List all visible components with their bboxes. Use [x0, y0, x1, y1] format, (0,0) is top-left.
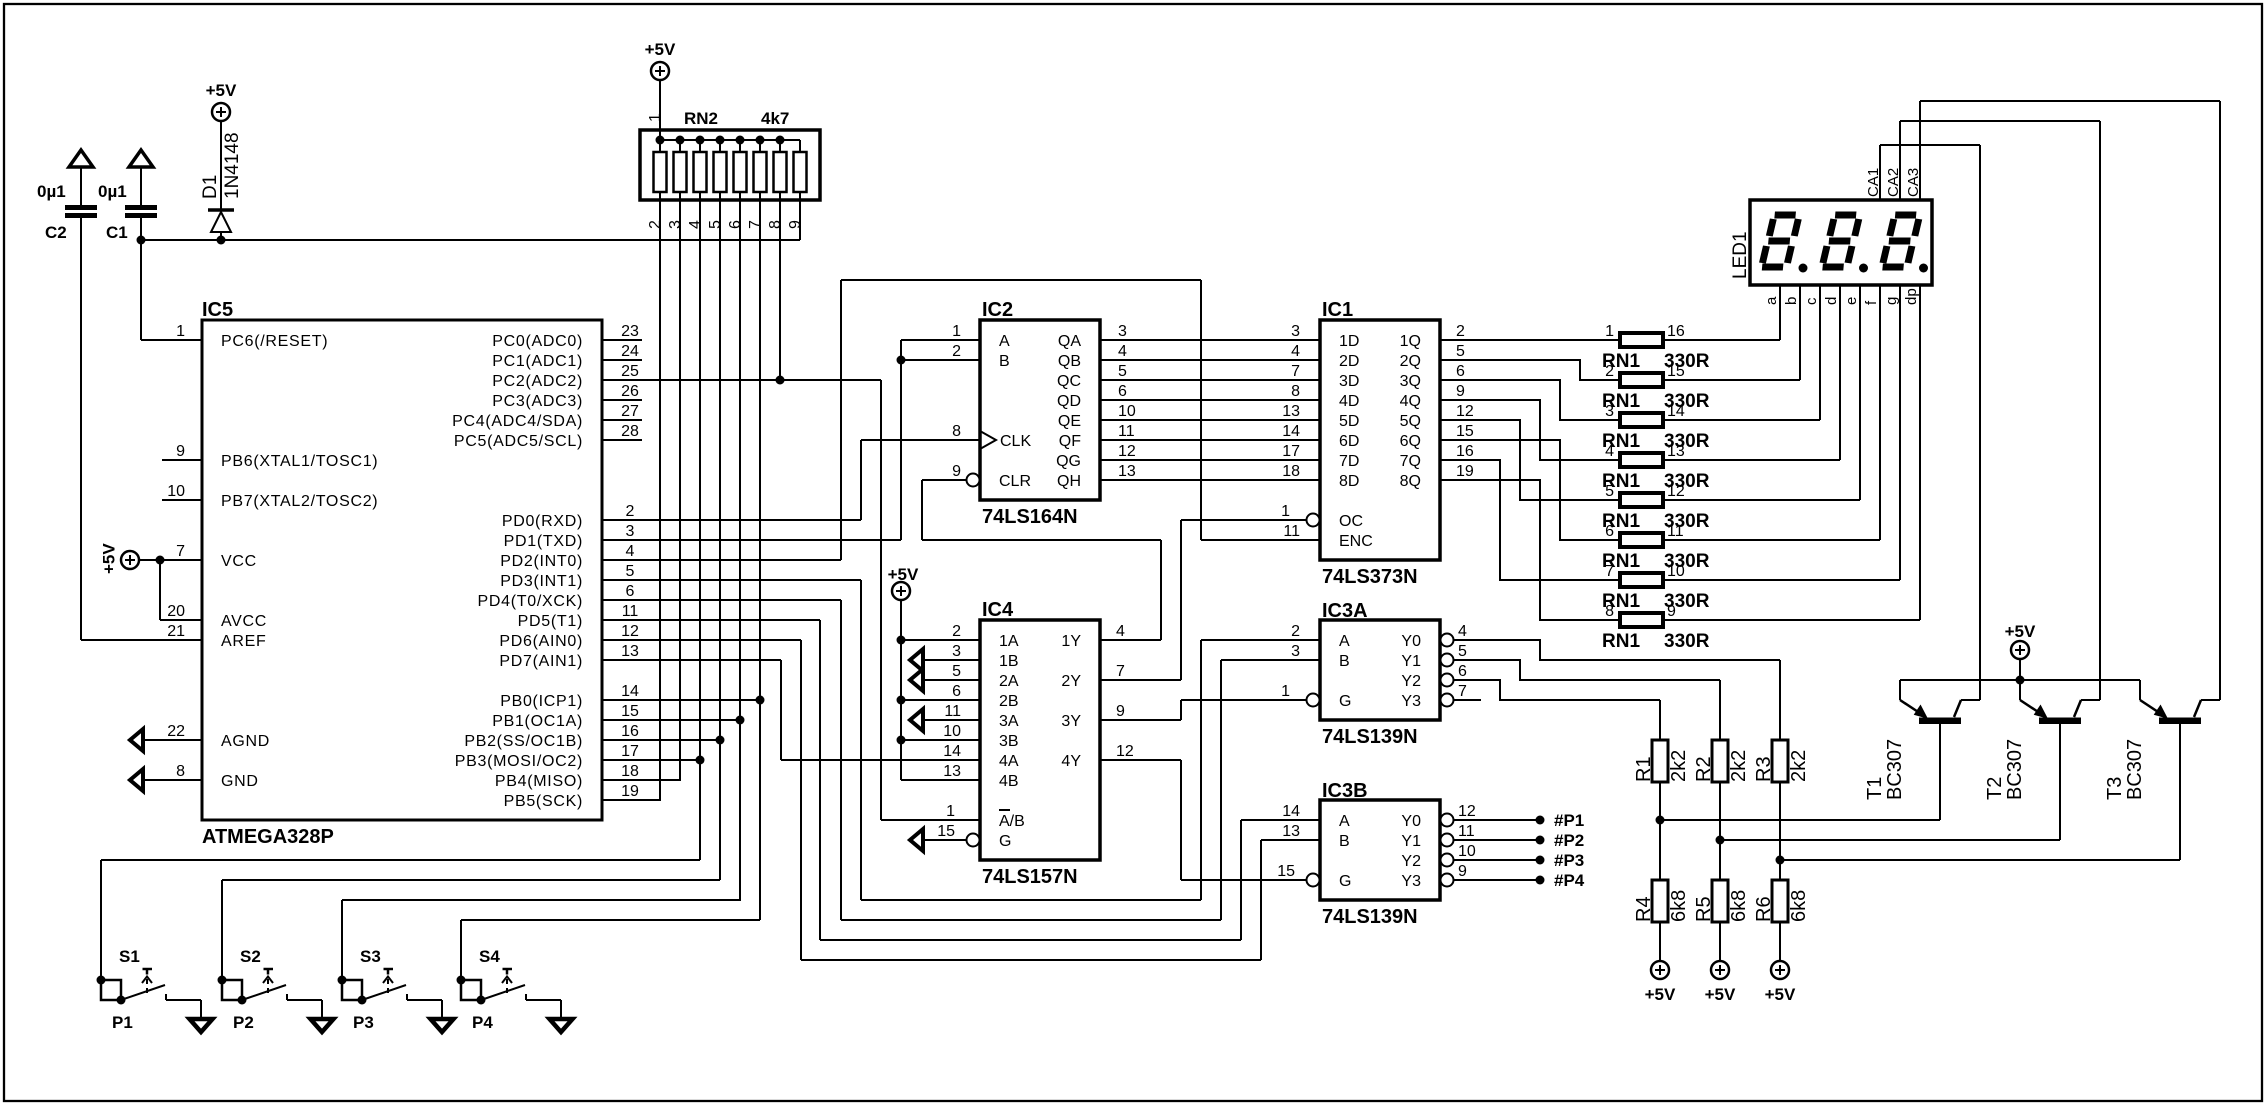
IC3A pin names [1281, 623, 1467, 710]
svg-text:CLK: CLK [1000, 433, 1031, 450]
svg-text:74LS139N: 74LS139N [1322, 726, 1418, 748]
svg-text:13: 13 [943, 763, 961, 780]
svg-text:4: 4 [687, 220, 704, 229]
svg-text:14: 14 [621, 683, 639, 700]
svg-text:7: 7 [1605, 563, 1614, 580]
IC3A Y3 bubble [1441, 694, 1482, 707]
diode D1 1N4148 [200, 121, 243, 245]
switch S4 [457, 947, 526, 1032]
svg-text:S4: S4 [479, 947, 500, 966]
svg-text:#P3: #P3 [1554, 851, 1584, 870]
IC4 pin 1A wire [901, 639, 980, 641]
svg-text:PC4(ADC4/SDA): PC4(ADC4/SDA) [452, 413, 583, 430]
wire S2 to ground [287, 994, 322, 1020]
capacitor C1 [98, 150, 157, 242]
svg-text:d: d [1823, 297, 1840, 305]
wire P2 net [221, 880, 223, 980]
svg-text:ENC: ENC [1339, 533, 1373, 550]
svg-text:T3: T3 [2104, 777, 2126, 800]
wire CA2 to T2 collector [1900, 121, 2100, 700]
svg-text:15: 15 [1456, 423, 1474, 440]
wire RN1-2 to LED segment b [1663, 285, 1800, 380]
RN2 pin 7 wire [756, 200, 765, 920]
wire R1 junction to transistor base [1656, 816, 1941, 825]
svg-text:R4: R4 [1633, 896, 1655, 922]
svg-text:S3: S3 [360, 947, 381, 966]
svg-text:4D: 4D [1339, 393, 1359, 410]
power +5V below R4 [1645, 961, 1676, 1004]
svg-text:P3: P3 [353, 1013, 374, 1032]
svg-text:GND: GND [221, 773, 259, 790]
wire VCC-AVCC [160, 560, 202, 620]
svg-text:A: A [1339, 813, 1350, 830]
wire Y1 to R2 [1454, 660, 1720, 680]
svg-text:5Q: 5Q [1400, 413, 1421, 430]
ground arrow AGND [130, 729, 202, 751]
svg-text:7: 7 [1116, 663, 1125, 680]
IC4 G bubble [910, 829, 980, 851]
svg-text:9: 9 [176, 443, 185, 460]
svg-text:P2: P2 [233, 1013, 254, 1032]
svg-text:+5V: +5V [888, 565, 919, 584]
wire S4 to ground [526, 994, 561, 1020]
svg-text:PB0(ICP1): PB0(ICP1) [500, 693, 583, 710]
svg-text:9: 9 [787, 220, 804, 229]
RN2 pin labels 2-9 [647, 220, 804, 229]
wire PD6 to IC3B B [602, 640, 1320, 960]
svg-text:C1: C1 [106, 223, 128, 242]
svg-text:4A: 4A [999, 753, 1019, 770]
IC IC2 74LS164N box [980, 299, 1100, 528]
wire PB3 row [602, 759, 700, 761]
svg-text:Y3: Y3 [1401, 873, 1421, 890]
svg-text:RN2: RN2 [684, 109, 718, 128]
IC2 pin B wire [901, 359, 980, 361]
svg-text:AREF: AREF [221, 633, 266, 650]
power +5V at D1 [206, 81, 237, 121]
svg-text:13: 13 [621, 643, 639, 660]
IC1 right pin names [1400, 323, 1474, 490]
bus IC2 outputs to IC1 inputs [1100, 340, 1320, 480]
svg-text:g: g [1883, 297, 1900, 305]
svg-text:B: B [999, 353, 1010, 370]
svg-text:6k8: 6k8 [1788, 890, 1810, 922]
wire 4Q to RN1-4 [1440, 400, 1620, 460]
svg-text:19: 19 [1456, 463, 1474, 480]
svg-text:A/B: A/B [999, 813, 1025, 830]
svg-text:+5V: +5V [100, 543, 119, 574]
svg-text:1: 1 [1281, 683, 1290, 700]
wire PC2 to IC4 select [602, 380, 980, 820]
svg-text:22: 22 [167, 723, 185, 740]
resistor R1 2k2 [1633, 700, 1690, 820]
svg-text:PB1(OC1A): PB1(OC1A) [492, 713, 583, 730]
svg-text:74LS164N: 74LS164N [982, 506, 1078, 528]
svg-text:7: 7 [1458, 683, 1467, 700]
svg-text:2Y: 2Y [1061, 673, 1081, 690]
svg-text:13: 13 [1282, 403, 1300, 420]
svg-text:a: a [1763, 296, 1780, 305]
IC3B G bubble [1181, 874, 1320, 887]
wire R2 junction to transistor base [1716, 836, 2061, 845]
LED1 pin CA1 [1865, 145, 1882, 200]
wire +5V to RN2 pin1 [647, 80, 664, 140]
svg-text:2D: 2D [1339, 353, 1359, 370]
power +5V at IC4 [888, 565, 919, 600]
IC3B Y1 bubble [1441, 834, 1454, 847]
svg-text:6k8: 6k8 [1668, 890, 1690, 922]
LED1 segment pin labels [1763, 288, 1920, 305]
svg-text:AVCC: AVCC [221, 613, 267, 630]
svg-text:T2: T2 [1984, 777, 2006, 800]
svg-text:1: 1 [176, 323, 185, 340]
wire P3 net [341, 900, 343, 980]
svg-text:3B: 3B [999, 733, 1019, 750]
svg-text:2: 2 [1456, 323, 1465, 340]
wire CA3 to T3 collector [1920, 101, 2220, 700]
svg-text:QA: QA [1058, 333, 1081, 350]
resistor network RN2 4k7 [640, 109, 820, 200]
svg-text:G: G [999, 833, 1011, 850]
svg-text:4Q: 4Q [1400, 393, 1421, 410]
svg-text:+5V: +5V [2005, 622, 2036, 641]
svg-text:6: 6 [1118, 383, 1127, 400]
ground arrow below S2 [311, 1019, 334, 1032]
IC3A Y1 bubble [1441, 654, 1454, 667]
svg-text:PC6(/RESET): PC6(/RESET) [221, 333, 328, 350]
svg-text:A: A [999, 333, 1010, 350]
IC5 stub PC0 [602, 339, 642, 341]
svg-text:18: 18 [621, 763, 639, 780]
IC5 stub PC1 [602, 359, 642, 361]
svg-text:12: 12 [1456, 403, 1474, 420]
svg-text:P4: P4 [472, 1013, 493, 1032]
IC2 pin A wire [901, 339, 980, 341]
svg-text:1B: 1B [999, 653, 1019, 670]
svg-text:19: 19 [621, 783, 639, 800]
svg-text:26: 26 [621, 383, 639, 400]
svg-text:5: 5 [1456, 343, 1465, 360]
svg-text:RN1: RN1 [1602, 631, 1640, 652]
power +5V below R6 [1765, 961, 1796, 1004]
svg-text:5: 5 [707, 220, 724, 229]
svg-text:D1: D1 [200, 175, 221, 199]
svg-text:15: 15 [1667, 363, 1685, 380]
resistor R6 6k8 [1753, 860, 1810, 961]
wire +5V emitter rail [1900, 679, 2140, 681]
wire CA1 to T1 collector [1880, 145, 1980, 700]
power +5V at VCC [100, 543, 139, 574]
svg-text:+5V: +5V [206, 81, 237, 100]
svg-text:14: 14 [1282, 803, 1300, 820]
svg-text:11: 11 [1458, 823, 1475, 840]
svg-text:ATMEGA328P: ATMEGA328P [202, 826, 334, 848]
svg-text:7D: 7D [1339, 453, 1359, 470]
svg-text:#P2: #P2 [1554, 831, 1584, 850]
svg-text:#P4: #P4 [1554, 871, 1585, 890]
RN2 pin 6 wire [736, 200, 745, 900]
svg-text:11: 11 [1667, 523, 1684, 540]
power +5V at RN2 [645, 40, 676, 80]
svg-text:10: 10 [1118, 403, 1136, 420]
wire RN1-1 to LED segment a [1663, 285, 1780, 340]
svg-text:6D: 6D [1339, 433, 1359, 450]
wire PD1 to IC2 A B [602, 340, 906, 540]
wire PD2 to IC1 ENC loop [602, 280, 1320, 560]
svg-text:7: 7 [176, 543, 185, 560]
svg-text:13: 13 [1282, 823, 1300, 840]
wire reset rail [141, 239, 800, 241]
svg-text:16: 16 [621, 723, 639, 740]
svg-text:16: 16 [1667, 323, 1685, 340]
svg-text:9: 9 [1456, 383, 1465, 400]
svg-text:12: 12 [1667, 483, 1685, 500]
svg-text:4: 4 [1116, 623, 1125, 640]
svg-text:4Y: 4Y [1061, 753, 1081, 770]
IC3B Y3 bubble [1441, 874, 1454, 887]
svg-text:6: 6 [1605, 523, 1614, 540]
IC3B pin names [1277, 803, 1476, 890]
svg-text:8: 8 [952, 423, 961, 440]
svg-text:C2: C2 [45, 223, 67, 242]
svg-text:10: 10 [943, 723, 961, 740]
svg-text:2k2: 2k2 [1728, 750, 1750, 782]
svg-text:dp: dp [1903, 288, 1920, 305]
wire R3 junction to transistor base [1776, 856, 2181, 865]
RN2 pin 2 wire [659, 200, 661, 800]
svg-text:9: 9 [1458, 863, 1467, 880]
wire PB1 row [602, 719, 741, 721]
svg-text:IC3B: IC3B [1322, 780, 1368, 802]
wire P4 net [460, 920, 462, 980]
svg-text:QE: QE [1058, 413, 1081, 430]
svg-text:17: 17 [1282, 443, 1300, 460]
svg-text:2k2: 2k2 [1668, 750, 1690, 782]
power +5V at rail [2005, 622, 2036, 685]
svg-text:IC5: IC5 [202, 299, 233, 321]
svg-text:2: 2 [1605, 363, 1614, 380]
svg-text:7: 7 [747, 220, 764, 229]
resistor RN1-1 330R [1602, 323, 1710, 372]
transistor T2 BC307 [1984, 680, 2100, 840]
svg-text:3: 3 [1291, 643, 1300, 660]
svg-text:15: 15 [937, 823, 955, 840]
wire PD7 to IC4 4A [602, 660, 980, 760]
svg-text:Y2: Y2 [1401, 673, 1421, 690]
svg-text:3Y: 3Y [1061, 713, 1081, 730]
svg-text:PD1(TXD): PD1(TXD) [504, 533, 583, 550]
wire PB0 net to S4 [461, 919, 760, 921]
resistor R3 2k2 [1753, 660, 1810, 860]
svg-text:1N4148: 1N4148 [222, 132, 243, 199]
wire PB1 net to S3 [342, 899, 741, 901]
IC IC1 74LS373N box [1320, 299, 1440, 588]
svg-text:2B: 2B [999, 693, 1019, 710]
svg-text:74LS373N: 74LS373N [1322, 566, 1418, 588]
svg-text:23: 23 [621, 323, 639, 340]
svg-text:A: A [1339, 633, 1350, 650]
svg-text:3: 3 [1605, 403, 1614, 420]
svg-text:R3: R3 [1753, 756, 1775, 782]
wire 8Q to RN1-8 [1440, 480, 1620, 620]
svg-text:7Q: 7Q [1400, 453, 1421, 470]
svg-text:27: 27 [621, 403, 639, 420]
wire C2-AREF [81, 218, 202, 640]
svg-text:CA1: CA1 [1865, 168, 1882, 197]
svg-text:QF: QF [1059, 433, 1081, 450]
resistor RN1-6 330R [1602, 523, 1710, 572]
svg-text:PC5(ADC5/SCL): PC5(ADC5/SCL) [454, 433, 583, 450]
IC5 pin 9 stub [162, 459, 202, 461]
svg-text:5: 5 [1458, 643, 1467, 660]
resistor R5 6k8 [1693, 840, 1750, 961]
svg-text:74LS157N: 74LS157N [982, 866, 1078, 888]
wire PD3 to IC3A A [602, 580, 1320, 900]
wire 1Q to RN1-1 [1440, 339, 1620, 341]
wire RN1-3 to LED segment c [1663, 285, 1820, 420]
IC5 stub PC3 [602, 399, 642, 401]
wire VCC [139, 556, 202, 565]
svg-text:10: 10 [1667, 563, 1685, 580]
wire 2Q to RN1-2 [1440, 360, 1620, 380]
svg-text:8: 8 [1291, 383, 1300, 400]
svg-text:PB7(XTAL2/TOSC2): PB7(XTAL2/TOSC2) [221, 493, 378, 510]
svg-text:IC2: IC2 [982, 299, 1013, 321]
wire PB5 row [602, 799, 661, 801]
svg-text:15: 15 [1277, 863, 1295, 880]
wire 5Q to RN1-5 [1440, 420, 1620, 500]
resistor RN1-2 330R [1602, 363, 1710, 412]
wire S1 to ground [166, 994, 201, 1020]
svg-text:8D: 8D [1339, 473, 1359, 490]
wire RN1-8 to LED segment dp [1663, 285, 1920, 620]
svg-text:PD7(AIN1): PD7(AIN1) [499, 653, 583, 670]
svg-text:PD5(T1): PD5(T1) [518, 613, 583, 630]
IC2 right pin names [1056, 323, 1136, 490]
svg-text:9: 9 [1116, 703, 1125, 720]
svg-text:10: 10 [167, 483, 185, 500]
wire OC net from IC4 2Y [1101, 520, 1181, 680]
wire PD4 to IC3A B [602, 600, 1320, 920]
wire 7Q to RN1-7 [1440, 460, 1620, 580]
svg-text:B: B [1339, 833, 1350, 850]
svg-text:2: 2 [1291, 623, 1300, 640]
svg-text:QB: QB [1058, 353, 1081, 370]
IC IC3A 74LS139N box [1320, 600, 1440, 748]
svg-text:4k7: 4k7 [761, 109, 789, 128]
svg-text:PC0(ADC0): PC0(ADC0) [492, 333, 583, 350]
IC4 pin 4B wire [901, 779, 980, 781]
svg-text:5: 5 [1605, 483, 1614, 500]
RN2 pin 3 wire [679, 200, 681, 780]
svg-text:8: 8 [767, 220, 784, 229]
svg-text:PD0(RXD): PD0(RXD) [502, 513, 583, 530]
node #P1 [1454, 811, 1584, 830]
wire S3 to ground [407, 994, 442, 1020]
svg-text:18: 18 [1282, 463, 1300, 480]
svg-text:PB4(MISO): PB4(MISO) [495, 773, 583, 790]
IC3A Y2 bubble [1441, 674, 1454, 687]
switch S1 [97, 947, 166, 1032]
svg-text:4B: 4B [999, 773, 1019, 790]
wire Y0 to R3 [1454, 640, 1780, 660]
svg-text:1A: 1A [999, 633, 1019, 650]
svg-text:S1: S1 [119, 947, 140, 966]
IC5 left pin names [167, 323, 378, 790]
wire PB2 net to S2 [222, 879, 720, 881]
svg-text:QD: QD [1057, 393, 1081, 410]
svg-text:0µ1: 0µ1 [37, 182, 66, 201]
IC IC3B 74LS139N box [1320, 780, 1440, 928]
IC5 stub PC4 [602, 419, 642, 421]
svg-text:Y0: Y0 [1401, 633, 1421, 650]
IC IC4 74LS157N box [980, 599, 1100, 888]
svg-text:6k8: 6k8 [1728, 890, 1750, 922]
svg-text:4: 4 [1291, 343, 1300, 360]
svg-text:3: 3 [1291, 323, 1300, 340]
svg-text:Y3: Y3 [1401, 693, 1421, 710]
svg-text:2: 2 [647, 220, 664, 229]
wire IC4 4Y to IC3B G [1101, 760, 1181, 880]
svg-text:12: 12 [1118, 443, 1136, 460]
svg-text:2: 2 [952, 343, 961, 360]
svg-text:3Q: 3Q [1400, 373, 1421, 390]
svg-text:QC: QC [1057, 373, 1081, 390]
ground arrow GND [130, 769, 202, 791]
svg-text:21: 21 [167, 623, 185, 640]
ground arrow below S4 [550, 1019, 573, 1032]
svg-text:b: b [1783, 297, 1800, 305]
capacitor C2 [37, 150, 97, 242]
svg-text:5: 5 [626, 563, 635, 580]
svg-text:8Q: 8Q [1400, 473, 1421, 490]
LED1 3-digit 7-segment display [1730, 200, 1932, 285]
svg-text:2: 2 [952, 623, 961, 640]
svg-text:25: 25 [621, 363, 639, 380]
svg-text:6: 6 [727, 220, 744, 229]
svg-text:1: 1 [647, 113, 664, 122]
svg-text:R5: R5 [1693, 896, 1715, 922]
svg-text:74LS139N: 74LS139N [1322, 906, 1418, 928]
svg-text:3: 3 [1118, 323, 1127, 340]
svg-text:4: 4 [1458, 623, 1467, 640]
IC2 CLK triangle [980, 431, 996, 449]
svg-text:1: 1 [1281, 503, 1290, 520]
svg-text:PC1(ADC1): PC1(ADC1) [492, 353, 583, 370]
wire PB3 net to S1 [101, 859, 700, 861]
svg-text:10: 10 [1458, 843, 1476, 860]
RN2 pin 4 wire [696, 200, 705, 860]
svg-text:14: 14 [1282, 423, 1300, 440]
svg-text:VCC: VCC [221, 553, 257, 570]
svg-text:5: 5 [952, 663, 961, 680]
svg-text:IC3A: IC3A [1322, 600, 1368, 622]
svg-text:1D: 1D [1339, 333, 1359, 350]
svg-text:12: 12 [1116, 743, 1134, 760]
IC5 pin 10 stub [162, 499, 202, 501]
svg-text:4: 4 [626, 543, 635, 560]
svg-text:PD3(INT1): PD3(INT1) [500, 573, 583, 590]
svg-text:+5V: +5V [1705, 985, 1736, 1004]
resistor RN1-7 330R [1602, 563, 1710, 612]
wire PB2 row [602, 739, 720, 741]
svg-text:LED1: LED1 [1730, 231, 1751, 279]
svg-text:1Q: 1Q [1400, 333, 1421, 350]
svg-text:IC1: IC1 [1322, 299, 1353, 321]
wire Y2 to R1 [1454, 680, 1660, 700]
IC2 left pin names [952, 323, 1031, 490]
svg-text:PB2(SS/OC1B): PB2(SS/OC1B) [464, 733, 583, 750]
